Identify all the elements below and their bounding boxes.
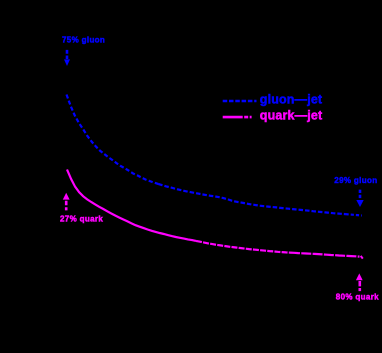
svg-text:27% quark: 27% quark bbox=[60, 215, 103, 224]
svg-text:75% gluon: 75% gluon bbox=[62, 35, 105, 44]
svg-text:quark—jet: quark—jet bbox=[260, 108, 323, 122]
svg-text:29% gluon: 29% gluon bbox=[334, 176, 377, 185]
svg-text:80% quark: 80% quark bbox=[336, 293, 379, 302]
svg-text:gluon—jet: gluon—jet bbox=[260, 92, 323, 106]
